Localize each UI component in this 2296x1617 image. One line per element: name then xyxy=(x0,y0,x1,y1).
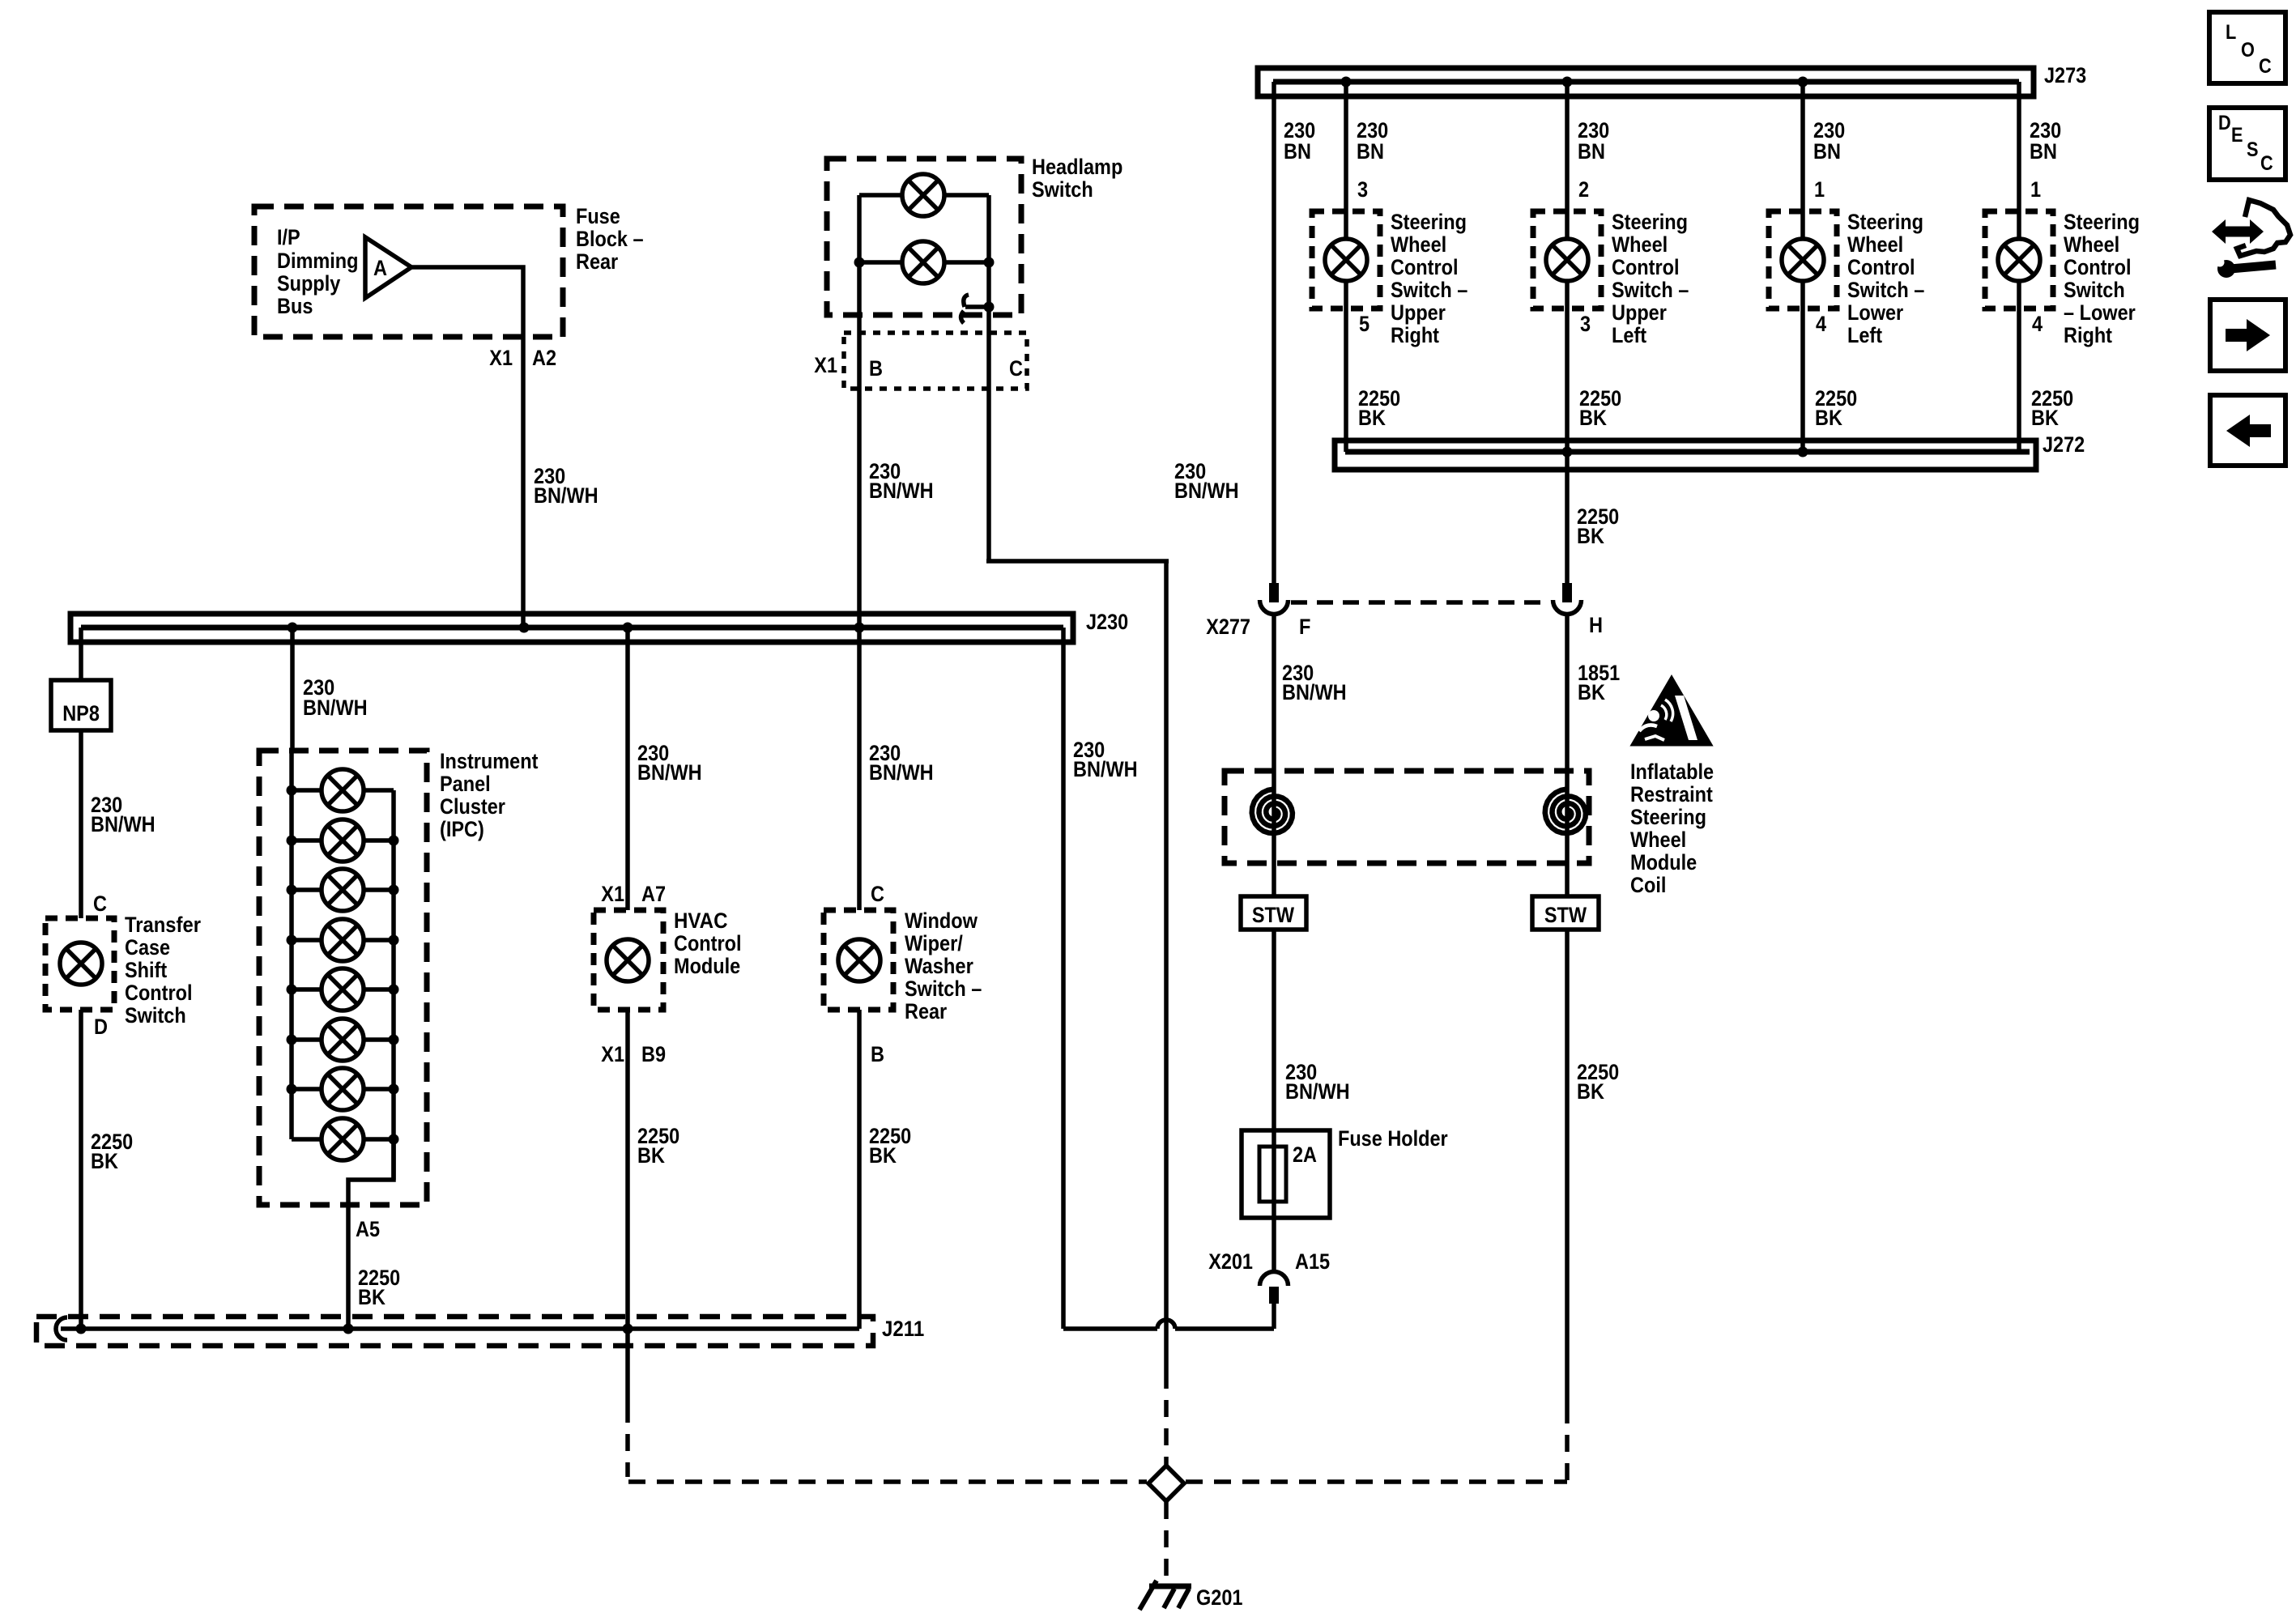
bus bar J272 outer shell xyxy=(1335,440,2036,470)
wire label 230 BN/WH (headlamp C) xyxy=(1174,459,1239,503)
node junction J211-HVAC xyxy=(623,1324,633,1334)
svg-text:Switch: Switch xyxy=(1032,177,1093,202)
svg-text:Module: Module xyxy=(674,954,740,978)
svg-text:Wheel: Wheel xyxy=(1391,232,1446,257)
svg-text:A: A xyxy=(373,256,387,280)
ground bus J211 dashed box xyxy=(36,1317,873,1346)
svg-text:BN: BN xyxy=(1578,139,1605,164)
lamp steering wheel control switch col1 xyxy=(1325,239,1367,281)
svg-text:Fuse: Fuse xyxy=(576,204,620,228)
HVAC control module box xyxy=(594,910,663,1010)
svg-text:A5: A5 xyxy=(356,1217,380,1241)
svg-text:4: 4 xyxy=(1816,312,1826,336)
lamp steering wheel control switch col4 xyxy=(1998,239,2040,281)
svg-text:BN/WH: BN/WH xyxy=(869,760,934,785)
svg-text:Coil: Coil xyxy=(1630,873,1666,897)
svg-text:D: D xyxy=(2218,112,2231,134)
svg-text:BK: BK xyxy=(637,1143,665,1168)
svg-text:Fuse Holder: Fuse Holder xyxy=(1338,1126,1448,1151)
label 2A xyxy=(1293,1143,1317,1167)
svg-text:J272: J272 xyxy=(2043,432,2085,457)
label Inflatable Restraint Steering Wheel Module Coil xyxy=(1630,760,1714,897)
wire label 2250 BK col4 xyxy=(2031,386,2073,430)
svg-text:Right: Right xyxy=(2064,323,2112,347)
svg-text:Lower: Lower xyxy=(1847,300,1904,325)
fuse block - rear dashed box xyxy=(254,206,563,337)
IPC lamp stubs xyxy=(292,790,394,1139)
svg-text:BK: BK xyxy=(1358,406,1386,430)
svg-text:Wheel: Wheel xyxy=(1847,232,1903,257)
wire label 230 BN/WH (wiper) xyxy=(869,741,934,785)
wire 230 BN/WH below NP8 xyxy=(79,730,83,918)
svg-text:(IPC): (IPC) xyxy=(440,817,484,841)
svg-text:G201: G201 xyxy=(1196,1585,1243,1610)
label X277 xyxy=(1206,615,1250,639)
svg-text:Instrument: Instrument xyxy=(440,749,538,773)
svg-text:Control: Control xyxy=(1612,255,1680,279)
bus bar J273 inner conductor xyxy=(1273,79,2019,85)
connector X201 pin A15 xyxy=(1260,1272,1289,1304)
label J230 xyxy=(1086,610,1128,634)
connector STW right box xyxy=(1532,896,1599,930)
IPC backlighting lamps x8 xyxy=(322,769,364,1160)
svg-text:BK: BK xyxy=(1577,1079,1604,1104)
wire label 1851 BK (H) xyxy=(1578,661,1620,704)
svg-text:3: 3 xyxy=(1580,312,1591,336)
node junction J230-headlamp xyxy=(854,623,865,633)
svg-text:J273: J273 xyxy=(2044,63,2086,87)
airbag warning symbol xyxy=(1632,677,1711,745)
label steering wheel control switch col4 xyxy=(2064,210,2140,347)
lamp steering wheel control switch col2 xyxy=(1546,239,1588,281)
label Fuse Holder xyxy=(1338,1126,1448,1151)
wire label 2250 BK (NP8 col) xyxy=(91,1130,133,1173)
splice diamond xyxy=(1148,1466,1184,1501)
svg-text:BK: BK xyxy=(1578,680,1605,704)
wire label 230 BN/WH (IPC) xyxy=(303,675,368,720)
label Transfer Case Shift Control Switch xyxy=(125,913,201,1028)
switch lever (headlamp) xyxy=(961,295,990,323)
pin label 5 col1 xyxy=(1359,312,1370,336)
pin label 4 col3 xyxy=(1816,312,1826,336)
svg-text:BK: BK xyxy=(1579,406,1607,430)
svg-text:Control: Control xyxy=(1847,255,1915,279)
wire label 2250 BK col1 xyxy=(1358,386,1400,430)
pin label B (wiper) xyxy=(871,1042,884,1066)
label G201 xyxy=(1196,1585,1243,1610)
pin label X1 (HVAC top) xyxy=(601,882,624,906)
node junction J273-col2 xyxy=(1562,77,1573,87)
svg-text:BK: BK xyxy=(869,1143,897,1168)
wire above X201 xyxy=(1272,1218,1276,1270)
pin label A5 xyxy=(356,1217,380,1241)
pin label D (transfer case) xyxy=(94,1015,108,1039)
connector STW left box xyxy=(1241,896,1306,930)
svg-text:Steering: Steering xyxy=(1391,210,1467,234)
icon box arrow left xyxy=(2210,395,2285,466)
wire 230 BN/WH to IPC xyxy=(290,628,295,751)
svg-text:B9: B9 xyxy=(641,1042,666,1066)
wire label 230 BN/WH (A2 wire) xyxy=(534,464,598,508)
IPC right lamp rail xyxy=(391,790,396,1180)
node junction J273-col3 xyxy=(1798,77,1808,87)
pin label B9 (HVAC) xyxy=(641,1042,666,1066)
wire label 2250 BK (below STW) xyxy=(1577,1060,1619,1104)
svg-text:2A: 2A xyxy=(1293,1143,1317,1167)
svg-text:Switch: Switch xyxy=(2064,278,2125,302)
wire label 230 BN col2 xyxy=(1578,118,1609,164)
svg-text:BN/WH: BN/WH xyxy=(1174,479,1239,503)
pin label H (X277) xyxy=(1589,613,1603,637)
svg-text:E: E xyxy=(2231,124,2243,147)
node junction J211-IPC xyxy=(343,1324,354,1334)
pin label A7 (HVAC) xyxy=(641,882,666,906)
label I/P Dimming Supply Bus xyxy=(277,225,359,318)
bus bar J272 inner conductor xyxy=(1345,449,2030,455)
label J272 xyxy=(2043,432,2085,457)
icon connector-view with wrench xyxy=(2210,200,2290,278)
svg-text:S: S xyxy=(2247,138,2259,161)
lamp steering wheel control switch col3 xyxy=(1782,239,1824,281)
IPC left lamp rail xyxy=(289,751,294,1139)
svg-text:BN/WH: BN/WH xyxy=(1282,680,1347,704)
svg-text:Dimming: Dimming xyxy=(277,249,359,273)
svg-text:A2: A2 xyxy=(532,346,556,370)
svg-text:Steering: Steering xyxy=(1630,805,1706,829)
svg-text:X1: X1 xyxy=(601,1042,624,1066)
wire 230 BN/WH below X277 F xyxy=(1272,615,1276,896)
wire headlamp left branch (B) xyxy=(857,195,862,628)
svg-text:Panel: Panel xyxy=(440,772,491,796)
steering wheel control switch box col2 xyxy=(1533,211,1601,309)
svg-text:2: 2 xyxy=(1578,177,1589,202)
coil spiral left (U1) xyxy=(1252,789,1293,834)
svg-text:BK: BK xyxy=(358,1285,386,1309)
svg-text:BN: BN xyxy=(1357,139,1384,164)
wire label 230 BN/WH (J230 right end) xyxy=(1073,738,1138,781)
svg-text:Right: Right xyxy=(1391,323,1439,347)
svg-text:BK: BK xyxy=(1815,406,1842,430)
ground symbol G201 xyxy=(1139,1581,1191,1610)
wire label 230 BN/WH (F) xyxy=(1282,661,1347,704)
svg-text:A7: A7 xyxy=(641,882,666,906)
svg-text:A15: A15 xyxy=(1295,1249,1330,1274)
svg-text:Washer: Washer xyxy=(905,954,973,978)
svg-text:BN: BN xyxy=(1284,139,1311,164)
wire label 2250 BK col2 xyxy=(1579,386,1621,430)
pin label X1 (HVAC bottom) xyxy=(601,1042,624,1066)
svg-text:STW: STW xyxy=(1252,903,1295,927)
label J273 xyxy=(2044,63,2086,87)
wire ground dashed from right STW xyxy=(1565,1406,1570,1482)
pin label 3 col2 xyxy=(1580,312,1591,336)
svg-text:BN/WH: BN/WH xyxy=(91,812,155,836)
svg-text:B: B xyxy=(871,1042,884,1066)
pin label C (wiper) xyxy=(871,882,884,906)
svg-text:Case: Case xyxy=(125,935,170,960)
wire label 230 BN col4 xyxy=(2030,118,2061,164)
node junction J272-col2 xyxy=(1562,447,1573,457)
svg-text:F: F xyxy=(1299,615,1310,639)
wire headlamp right branch (C) xyxy=(986,195,991,307)
wire label 230 BN col1 xyxy=(1357,118,1388,164)
transfer case shift control switch box xyxy=(45,918,114,1010)
svg-text:Wiper/: Wiper/ xyxy=(905,931,963,955)
svg-text:Control: Control xyxy=(125,981,193,1005)
wire bottom run with crossover hop xyxy=(1063,1320,1274,1329)
node junction J211-transfer xyxy=(76,1324,87,1334)
wire 2250 BK below HVAC xyxy=(625,1010,630,1329)
svg-text:Rear: Rear xyxy=(905,999,948,1023)
svg-text:Inflatable: Inflatable xyxy=(1630,760,1714,784)
svg-text:X201: X201 xyxy=(1208,1249,1253,1274)
wire ground riser below hop xyxy=(1164,1329,1169,1465)
pin label A2 xyxy=(532,346,556,370)
wire 2250 BK below wiper xyxy=(857,1010,862,1329)
svg-text:Wheel: Wheel xyxy=(1630,828,1686,852)
svg-text:Transfer: Transfer xyxy=(125,913,201,937)
inflatable restraint coil dashed box xyxy=(1225,771,1589,863)
svg-text:Upper: Upper xyxy=(1391,300,1446,325)
svg-text:– Lower: – Lower xyxy=(2064,300,2136,325)
pin label 2 col2 xyxy=(1578,177,1589,202)
steering wheel control switch box col3 xyxy=(1769,211,1837,309)
wire label 230 BN/WH (NP8 col) xyxy=(91,793,155,836)
option box NP8 xyxy=(51,680,111,730)
svg-text:Control: Control xyxy=(2064,255,2132,279)
wire 2250 BK below right STW xyxy=(1565,930,1570,1406)
wire label 230 BN/WH (headlamp B) xyxy=(869,459,934,503)
wire 230 BN/WH to wiper switch xyxy=(857,628,862,910)
pin label F (X277) xyxy=(1299,615,1310,639)
wire 230 BN/WH from fuse block A2 xyxy=(411,267,523,628)
pin label 3 col1 xyxy=(1357,177,1368,202)
wire 230 BN steering col2 xyxy=(1565,82,1570,583)
dimming supply bus triangle A xyxy=(365,237,411,298)
node junction headlamp right xyxy=(984,257,995,268)
svg-text:O: O xyxy=(2241,39,2255,62)
pin label 4 col4 xyxy=(2032,312,2043,336)
label Headlamp Switch xyxy=(1032,155,1122,202)
svg-text:C: C xyxy=(871,882,884,906)
svg-text:X277: X277 xyxy=(1206,615,1250,639)
wire headlamp top rail xyxy=(859,193,989,198)
wire 230 BN steering col1 xyxy=(1344,82,1348,452)
svg-text:5: 5 xyxy=(1359,312,1370,336)
label steering wheel control switch col3 xyxy=(1847,210,1924,347)
svg-text:J211: J211 xyxy=(882,1317,924,1341)
wire 230 BN/WH headlamp C run xyxy=(986,307,1169,1329)
svg-text:Left: Left xyxy=(1612,323,1646,347)
svg-text:Block –: Block – xyxy=(576,227,644,251)
wire through fuse holder xyxy=(1272,1130,1276,1218)
wire label 230 BN (left drop) xyxy=(1284,118,1315,164)
svg-text:BN/WH: BN/WH xyxy=(869,479,934,503)
icon box arrow right xyxy=(2210,300,2285,371)
svg-text:Switch –: Switch – xyxy=(1847,278,1924,302)
node junction J230-HVAC xyxy=(623,623,633,633)
svg-text:Switch –: Switch – xyxy=(1391,278,1467,302)
node junction J230-IPC xyxy=(288,623,298,633)
IPC rail junction dots xyxy=(287,785,399,1145)
svg-text:BN: BN xyxy=(1813,139,1841,164)
headlamp switch dashed box xyxy=(827,159,1021,315)
label Window Wiper/Washer Switch - Rear xyxy=(905,908,982,1023)
bus bar J230 inner conductor xyxy=(81,625,1063,631)
pin label 1 col3 xyxy=(1814,177,1825,202)
pin label X1 (fuse block) xyxy=(489,346,513,370)
svg-text:Restraint: Restraint xyxy=(1630,782,1713,806)
svg-text:X1: X1 xyxy=(814,353,837,377)
svg-text:Wheel: Wheel xyxy=(1612,232,1668,257)
svg-text:X1: X1 xyxy=(601,882,624,906)
svg-text:Left: Left xyxy=(1847,323,1882,347)
wire headlamp mid rail xyxy=(859,260,989,265)
wire ground dashed to G201 xyxy=(1164,1502,1169,1579)
svg-text:C: C xyxy=(1009,356,1023,381)
svg-text:Module: Module xyxy=(1630,850,1697,874)
svg-text:Supply: Supply xyxy=(277,271,340,296)
wire 230 BN/WH J230 right-end drop xyxy=(1061,628,1066,1329)
icon box LOC xyxy=(2209,12,2285,83)
wire label 2250 BK (IPC) xyxy=(358,1266,400,1309)
wire label 230 BN col3 xyxy=(1813,118,1845,164)
svg-text:Cluster: Cluster xyxy=(440,794,505,819)
connector X1 dotted box (headlamp) xyxy=(844,333,1027,389)
label X201 xyxy=(1208,1249,1253,1274)
wire label 2250 BK (wiper) xyxy=(869,1124,911,1168)
svg-text:Wheel: Wheel xyxy=(2064,232,2119,257)
svg-text:Control: Control xyxy=(674,931,742,955)
J211 splice arc xyxy=(56,1317,67,1340)
wire 230 BN steering col3 xyxy=(1800,82,1805,452)
lamp headlamp switch lower xyxy=(902,241,944,283)
svg-text:BK: BK xyxy=(2031,406,2059,430)
lamp headlamp switch upper xyxy=(902,174,944,216)
svg-text:D: D xyxy=(94,1015,108,1039)
wire below X201 xyxy=(1272,1304,1276,1329)
svg-text:BN: BN xyxy=(2030,139,2057,164)
wire 230 BN/WH below left STW xyxy=(1272,930,1276,1130)
svg-text:Steering: Steering xyxy=(1612,210,1688,234)
svg-text:Upper: Upper xyxy=(1612,300,1667,325)
svg-text:4: 4 xyxy=(2032,312,2043,336)
wire IPC A5 exit xyxy=(348,1139,394,1329)
svg-text:B: B xyxy=(869,356,883,381)
svg-text:BN/WH: BN/WH xyxy=(1285,1079,1350,1104)
pin label A15 xyxy=(1295,1249,1330,1274)
wire ground dashed from HVAC xyxy=(625,1329,630,1477)
pin label C (transfer case) xyxy=(93,891,107,916)
wire 230 BN/WH to HVAC xyxy=(625,628,630,910)
svg-text:C: C xyxy=(93,891,107,916)
node junction J272-col3 xyxy=(1798,447,1808,457)
svg-text:J230: J230 xyxy=(1086,610,1128,634)
svg-text:BN/WH: BN/WH xyxy=(1073,757,1138,781)
lamp transfer case shift control switch xyxy=(60,943,102,985)
icon box DESC xyxy=(2209,108,2285,180)
svg-text:Control: Control xyxy=(1391,255,1459,279)
wire 1851 BK below X277 H xyxy=(1565,615,1570,896)
steering wheel control switch box col1 xyxy=(1312,211,1380,309)
lamp HVAC control module xyxy=(607,939,649,981)
window wiper washer switch box xyxy=(824,910,893,1010)
ground bus J211 conductor xyxy=(61,1326,859,1331)
svg-text:Shift: Shift xyxy=(125,958,167,982)
svg-text:HVAC: HVAC xyxy=(674,908,728,933)
pin label C (headlamp) xyxy=(1009,356,1023,381)
svg-text:BK: BK xyxy=(1577,524,1604,548)
wire label 230 BN/WH (HVAC) xyxy=(637,741,702,785)
fuse holder box xyxy=(1242,1130,1330,1218)
label J211 xyxy=(882,1317,924,1341)
fuse element F1 xyxy=(1259,1147,1286,1202)
wire 230 BN left drop (to X277 F) xyxy=(1272,82,1276,583)
svg-text:NP8: NP8 xyxy=(62,701,100,726)
wire label 2250 BK (HVAC) xyxy=(637,1124,679,1168)
node junction headlamp left xyxy=(854,257,865,268)
lamp window wiper washer switch xyxy=(838,939,880,981)
wire 2250 BK below transfer case xyxy=(79,1010,83,1329)
label HVAC Control Module xyxy=(674,908,742,978)
bus bar J230 outer shell xyxy=(70,614,1073,642)
bus bar J273 outer shell xyxy=(1258,68,2034,96)
svg-text:C: C xyxy=(2260,152,2273,175)
svg-text:1: 1 xyxy=(2030,177,2041,202)
coil spiral right (U2) xyxy=(1545,789,1586,834)
connector X277 dashed line xyxy=(1291,600,1550,605)
node junction J230-A2 xyxy=(519,623,530,633)
svg-text:Window: Window xyxy=(905,908,978,933)
svg-text:BN/WH: BN/WH xyxy=(534,483,598,508)
steering wheel control switch box col4 xyxy=(1985,211,2053,309)
label steering wheel control switch col2 xyxy=(1612,210,1689,347)
svg-text:Bus: Bus xyxy=(277,294,313,318)
label Fuse Block - Rear xyxy=(576,204,644,274)
ground dashed bus xyxy=(628,1479,1567,1484)
svg-text:Switch: Switch xyxy=(125,1003,186,1028)
pin label B (headlamp) xyxy=(869,356,883,381)
wire label 230 BN/WH (below STW) xyxy=(1285,1060,1350,1104)
connector X277 pin F xyxy=(1260,583,1289,615)
wire 230 BN/WH to NP8 xyxy=(79,628,83,680)
wire label 2250 BK col3 xyxy=(1815,386,1857,430)
svg-text:Rear: Rear xyxy=(576,249,619,274)
svg-text:Steering: Steering xyxy=(1847,210,1923,234)
svg-text:H: H xyxy=(1589,613,1603,637)
svg-text:Steering: Steering xyxy=(2064,210,2140,234)
svg-text:I/P: I/P xyxy=(277,225,300,249)
svg-text:3: 3 xyxy=(1357,177,1368,202)
svg-text:STW: STW xyxy=(1544,903,1587,927)
wire label 2250 BK (J272 to X277 H) xyxy=(1577,504,1619,548)
instrument panel cluster dashed box xyxy=(259,751,427,1205)
label steering wheel control switch col1 xyxy=(1391,210,1467,347)
node junction J273-col1 xyxy=(1341,77,1352,87)
svg-text:C: C xyxy=(2259,55,2272,78)
pin label X1 (headlamp) xyxy=(814,353,837,377)
svg-text:Headlamp: Headlamp xyxy=(1032,155,1122,179)
svg-text:L: L xyxy=(2226,21,2236,44)
svg-text:BK: BK xyxy=(91,1149,118,1173)
svg-text:X1: X1 xyxy=(489,346,513,370)
svg-text:BN/WH: BN/WH xyxy=(303,696,368,720)
pin label 1 col4 xyxy=(2030,177,2041,202)
svg-text:Switch –: Switch – xyxy=(1612,278,1689,302)
svg-text:Switch –: Switch – xyxy=(905,977,982,1001)
wire 230 BN steering col4 xyxy=(2017,82,2021,452)
svg-text:BN/WH: BN/WH xyxy=(637,760,702,785)
